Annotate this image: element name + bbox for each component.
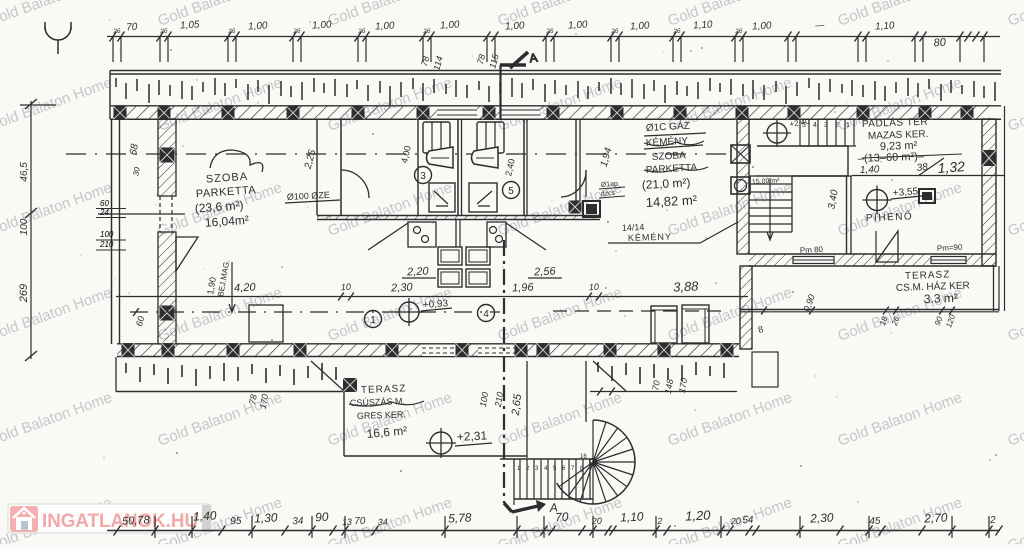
- svg-text:70: 70: [555, 510, 569, 525]
- stair treads upper flight: [800, 119, 856, 146]
- shower tray right: [469, 183, 497, 212]
- svg-text:5,78: 5,78: [448, 510, 472, 525]
- svg-text:1,00: 1,00: [630, 20, 651, 32]
- north symbol: [45, 22, 71, 54]
- svg-text:1,30: 1,30: [254, 510, 278, 525]
- right outer wall: [982, 119, 996, 266]
- svg-text:26: 26: [159, 28, 168, 36]
- attic dim line: [852, 175, 1004, 177]
- svg-text:1,10: 1,10: [693, 19, 714, 31]
- interior pillar lower: [158, 232, 176, 344]
- svg-text:2,70: 2,70: [923, 510, 948, 525]
- partition wall bath2/room2: [523, 119, 525, 215]
- svg-text:KÉMÉNY: KÉMÉNY: [628, 231, 672, 243]
- svg-text:5: 5: [508, 186, 514, 197]
- svg-text:24: 24: [99, 208, 109, 217]
- svg-text:+2,31: +2,31: [456, 428, 487, 444]
- level mark +0,93: [395, 298, 423, 326]
- svg-text:15,09 m²: 15,09 m²: [752, 178, 781, 186]
- partition pihenő left: [846, 176, 848, 254]
- svg-text:26: 26: [227, 28, 236, 36]
- svg-text:26: 26: [112, 28, 121, 36]
- svg-text:2,30: 2,30: [809, 510, 834, 525]
- window right bottom 1: [793, 257, 834, 264]
- svg-text:1,20: 1,20: [685, 507, 712, 523]
- svg-text:(21,0 m²): (21,0 m²): [641, 175, 690, 192]
- top wall posts: [114, 106, 127, 119]
- svg-text:INGATLANOK.HU: INGATLANOK.HU: [42, 511, 198, 532]
- top wall tick band: [116, 78, 995, 105]
- svg-text:1,05: 1,05: [180, 19, 201, 31]
- partition wall bath1/bath2: [457, 119, 459, 215]
- svg-text:2: 2: [989, 515, 997, 526]
- logo background box: [8, 504, 211, 533]
- svg-text:4: 4: [483, 309, 489, 320]
- porch step line: [98, 213, 185, 215]
- svg-text:26: 26: [672, 28, 681, 36]
- svg-text:2,20: 2,20: [406, 265, 430, 278]
- left wall small labels: [96, 199, 126, 250]
- svg-text:26: 26: [734, 28, 743, 36]
- bottom wall line top: [117, 343, 739, 345]
- svg-text:78: 78: [247, 394, 259, 406]
- svg-text:1,40: 1,40: [860, 164, 880, 176]
- window opening top wall 1: [437, 107, 477, 119]
- right section bottom wall: [749, 253, 996, 255]
- svg-text:45: 45: [869, 516, 881, 528]
- svg-text:100: 100: [100, 230, 114, 239]
- washbasin squares: [438, 247, 462, 265]
- svg-text:14,82 m²: 14,82 m²: [645, 192, 698, 210]
- door marker rect: [249, 305, 283, 342]
- svg-text:1,10: 1,10: [620, 509, 644, 524]
- svg-text:10: 10: [589, 282, 600, 293]
- WC left bowl: [427, 147, 454, 168]
- svg-text:1,00: 1,00: [312, 19, 333, 31]
- circled 4: [478, 305, 495, 322]
- circled 1: [365, 311, 382, 328]
- room2 labels: [641, 119, 708, 210]
- door swing triangle: [176, 237, 198, 271]
- WC left cistern: [423, 122, 450, 153]
- bottom wall openings: [422, 345, 456, 357]
- svg-text:4: 4: [813, 122, 817, 129]
- pihenő stair triangle: [876, 231, 898, 262]
- svg-text:34: 34: [378, 517, 389, 528]
- center dashed axis line: [66, 153, 730, 155]
- bottom dimension chain: [107, 516, 1003, 538]
- section cut line: [503, 240, 505, 503]
- washbasin counter right: [487, 222, 506, 247]
- svg-text:34: 34: [292, 516, 304, 528]
- bottom wall posts: [122, 343, 135, 357]
- svg-text:4,20: 4,20: [234, 281, 257, 294]
- top wall hatched strip: [110, 105, 1001, 107]
- svg-text:3: 3: [824, 122, 828, 129]
- svg-text:26: 26: [357, 28, 366, 36]
- terasz right outline: [993, 266, 995, 311]
- tick marks under wall: [597, 388, 603, 396]
- padlaster labels: [858, 115, 962, 165]
- svg-text:210: 210: [99, 240, 114, 249]
- svg-text:1,00: 1,00: [505, 20, 526, 32]
- svg-text:46,5: 46,5: [19, 162, 30, 182]
- stair treads lower flight: [749, 176, 792, 240]
- hall door arc: [341, 170, 369, 198]
- partition stub below wall: [455, 220, 457, 247]
- svg-text:20: 20: [591, 516, 603, 527]
- bottom wall line bottom: [117, 356, 739, 358]
- svg-text:38: 38: [916, 162, 929, 174]
- cupboard 1: [651, 306, 677, 343]
- chimney black square: [583, 201, 600, 217]
- svg-text:TERASZ: TERASZ: [361, 383, 407, 396]
- top dimension labels: [112, 19, 947, 71]
- terrace level mark: [426, 428, 456, 458]
- svg-text:70: 70: [650, 380, 662, 392]
- svg-text:1,00: 1,00: [752, 20, 773, 32]
- svg-text:CSÚSZÁS M.: CSÚSZÁS M.: [350, 396, 405, 408]
- svg-text:1,96: 1,96: [512, 281, 535, 294]
- svg-text:95: 95: [230, 516, 242, 528]
- svg-text:26: 26: [610, 28, 619, 36]
- door diagonals: [368, 223, 408, 250]
- svg-text:90: 90: [315, 510, 329, 525]
- interior wall horizontal: [317, 215, 600, 217]
- spiral staircase: [557, 420, 635, 504]
- pihenő level mark: [863, 186, 892, 215]
- svg-text:Pm=90: Pm=90: [937, 243, 964, 253]
- stair level mark: [763, 119, 791, 147]
- svg-text:70: 70: [126, 22, 138, 34]
- terrace band left: [116, 357, 345, 392]
- svg-text:GRES KER.: GRES KER.: [357, 409, 406, 421]
- svg-text:—: —: [814, 20, 826, 31]
- svg-text:2: 2: [835, 122, 839, 129]
- svg-text:13: 13: [342, 517, 353, 528]
- svg-text:80: 80: [933, 37, 947, 50]
- svg-text:26: 26: [292, 28, 301, 36]
- svg-text:50,78: 50,78: [122, 514, 151, 527]
- stair landing outline: [757, 146, 848, 176]
- svg-text:TERASZ: TERASZ: [905, 269, 951, 282]
- svg-text:3,88: 3,88: [673, 278, 700, 294]
- svg-text:10: 10: [341, 282, 352, 293]
- svg-text:3.3 m²: 3.3 m²: [924, 291, 958, 306]
- interior dim line y296: [116, 296, 748, 298]
- svg-text:1: 1: [846, 122, 850, 129]
- shower tray left: [429, 183, 455, 212]
- svg-text:1,00: 1,00: [440, 19, 461, 31]
- section marker A bottom: [504, 503, 512, 512]
- corner step rect: [752, 352, 778, 387]
- svg-text:14/14: 14/14: [622, 222, 645, 233]
- window right bottom 2: [931, 257, 966, 264]
- top wall outer double line: [110, 70, 1001, 72]
- terrace band right segment: [590, 361, 737, 392]
- left outer wall: [111, 119, 113, 344]
- svg-text:1,40: 1,40: [193, 508, 217, 523]
- svg-text:54: 54: [742, 515, 754, 527]
- left dimension line: [18, 99, 56, 361]
- top dimension chain: [107, 32, 1000, 63]
- svg-text:26: 26: [545, 28, 554, 36]
- logo house icon: [10, 506, 38, 532]
- room1 scribble circle: [210, 150, 263, 172]
- right wall lower segment: [740, 266, 752, 349]
- room1 label SZOBA PARKETTA: [192, 170, 258, 230]
- room2 door arc: [561, 170, 586, 197]
- circled 3: [415, 167, 432, 184]
- circled 5: [503, 182, 520, 199]
- svg-text:1: 1: [370, 315, 376, 326]
- partition wall hall/bath1: [417, 119, 419, 215]
- svg-text:100: 100: [19, 218, 30, 235]
- svg-text:70: 70: [354, 516, 366, 528]
- svg-text:26: 26: [422, 28, 431, 36]
- cupboard 2: [682, 305, 709, 343]
- WC right bowl: [472, 147, 499, 168]
- svg-text:1,00: 1,00: [375, 20, 396, 32]
- svg-text:269: 269: [18, 284, 30, 303]
- svg-text:2,30: 2,30: [390, 281, 414, 294]
- svg-text:1,32: 1,32: [937, 158, 966, 176]
- pillar door gap: [159, 196, 161, 232]
- svg-text:1,10: 1,10: [875, 20, 896, 32]
- chimney square with circle: [731, 177, 750, 194]
- window opening top wall 2: [502, 107, 540, 119]
- stairwell wall: [737, 119, 749, 254]
- washbasin counter left: [408, 222, 436, 247]
- dashed axis lower: [130, 311, 500, 313]
- svg-text:3: 3: [420, 171, 426, 182]
- svg-text:60: 60: [100, 199, 109, 208]
- straight stair run: [500, 459, 593, 505]
- svg-text:1,00: 1,00: [568, 19, 589, 31]
- section marker A top: [500, 51, 538, 119]
- svg-text:SZOBA: SZOBA: [652, 150, 687, 163]
- chimney square with X: [731, 145, 750, 163]
- WC right cistern: [477, 122, 504, 153]
- svg-text:1,00: 1,00: [248, 20, 269, 32]
- terasz bottom dim line: [740, 309, 999, 311]
- pihenő chimney sq: [919, 189, 935, 203]
- partition wall room1/hall: [316, 119, 318, 215]
- svg-text:20: 20: [730, 516, 742, 527]
- eave line right: [1004, 106, 1006, 311]
- partition wall room2 right: [575, 119, 577, 201]
- interior pillar upper: [158, 119, 176, 196]
- svg-text:2,56: 2,56: [533, 265, 557, 278]
- svg-text:2: 2: [656, 516, 663, 526]
- bottom dimension labels: [122, 507, 997, 527]
- terrace outline: [343, 392, 345, 457]
